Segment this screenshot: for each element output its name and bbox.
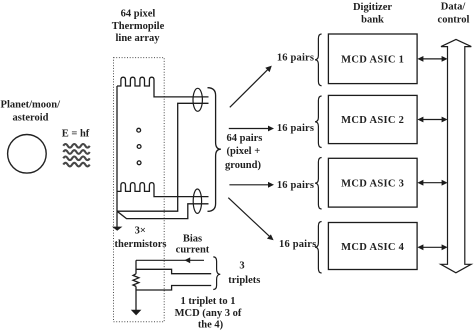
- array left bus wire: [116, 86, 118, 211]
- svg-text:Data/: Data/: [441, 1, 467, 12]
- label: Digitizer bank: [353, 2, 392, 25]
- svg-text:the 4): the 4): [198, 320, 224, 331]
- svg-text:MCD ASIC 3: MCD ASIC 3: [341, 179, 404, 190]
- bias current wire with arrow: [136, 259, 204, 261]
- arrow to ASIC2: [229, 128, 269, 130]
- triplet brace: [213, 257, 220, 290]
- svg-text:16 pairs: 16 pairs: [279, 239, 316, 250]
- label: Planet/moon/asteroid: [1, 100, 62, 124]
- arrow to ASIC4: [228, 198, 269, 237]
- label: 1 triplet to 1 MCD (any 3 of the 4): [175, 296, 242, 330]
- svg-text:16 pairs: 16 pairs: [277, 53, 314, 64]
- bus link ASIC1: [419, 58, 446, 60]
- bus link ASIC4: [419, 246, 446, 248]
- box MCD ASIC 4: [328, 223, 417, 270]
- arrow to ASIC1: [230, 69, 268, 107]
- svg-text:(pixel +: (pixel +: [227, 146, 261, 157]
- wire: ground return to top bundle: [117, 103, 209, 211]
- label: 64 pairs (pixel + ground): [225, 133, 262, 171]
- svg-text:16 pairs: 16 pairs: [277, 123, 314, 134]
- svg-text:1 triplet to 1: 1 triplet to 1: [180, 296, 235, 307]
- input brace ASIC3: [315, 158, 322, 210]
- svg-text:MCD ASIC 4: MCD ASIC 4: [341, 242, 405, 253]
- big brace 64 pairs: [208, 88, 221, 212]
- box MCD ASIC 1: [328, 34, 417, 84]
- arrow to ASIC3: [229, 184, 268, 186]
- svg-text:triplets: triplets: [228, 275, 260, 286]
- svg-text:control: control: [438, 14, 470, 25]
- box MCD ASIC 3: [328, 158, 417, 207]
- triplet wire bottom: [136, 286, 211, 291]
- svg-text:64 pixel: 64 pixel: [121, 9, 156, 20]
- label: 3x thermistors: [115, 226, 167, 250]
- svg-text:Planet/moon/: Planet/moon/: [1, 100, 62, 111]
- label: Data/control: [438, 1, 470, 25]
- input brace ASIC4: [315, 222, 322, 274]
- svg-text:bank: bank: [361, 14, 384, 25]
- data/control bus double arrow: [441, 39, 472, 272]
- svg-text:16 pairs: 16 pairs: [277, 180, 314, 191]
- svg-text:E = hf: E = hf: [62, 129, 90, 140]
- cable bundle ellipse bottom: [193, 189, 201, 213]
- input brace ASIC2: [315, 96, 322, 148]
- label: 64 pixel Thermopile line array: [112, 9, 165, 44]
- input brace ASIC1: [315, 34, 322, 86]
- svg-text:Bias: Bias: [183, 233, 202, 244]
- svg-text:line array: line array: [115, 33, 160, 44]
- svg-text:MCD ASIC 2: MCD ASIC 2: [341, 115, 404, 126]
- svg-text:ground): ground): [225, 160, 261, 171]
- radiation wave 4: [63, 163, 89, 167]
- svg-text:current: current: [176, 245, 210, 256]
- svg-text:thermistors: thermistors: [115, 239, 167, 250]
- thermistor chain arrow: [116, 211, 118, 227]
- cable bundle ellipse top: [193, 88, 202, 111]
- bus link ASIC2: [419, 119, 446, 121]
- bus link ASIC3: [419, 182, 446, 184]
- pixel ellipsis dot 1: [137, 128, 141, 132]
- svg-text:3×: 3×: [135, 226, 146, 237]
- svg-text:Thermopile: Thermopile: [112, 21, 165, 32]
- radiation wave 2: [63, 150, 89, 154]
- radiation wave 1: [63, 144, 89, 148]
- dashed array boundary box: [114, 58, 165, 322]
- pixel ellipsis dot 2: [137, 145, 141, 149]
- thermopile detector row 2 (humps): [117, 183, 209, 197]
- planet circle: [8, 135, 47, 174]
- thermistor resistor chain: [135, 260, 137, 274]
- svg-text:Digitizer: Digitizer: [353, 2, 392, 13]
- wire: ground return to bottom bundle: [117, 204, 209, 219]
- label: 16 pairs x4: [277, 53, 317, 250]
- label: 3 triplets: [228, 261, 260, 287]
- box MCD ASIC 2: [328, 95, 417, 143]
- pixel ellipsis dot 3: [137, 161, 141, 165]
- svg-text:MCD ASIC 1: MCD ASIC 1: [341, 55, 404, 66]
- svg-text:asteroid: asteroid: [13, 113, 49, 124]
- svg-text:64 pairs: 64 pairs: [227, 133, 263, 144]
- label: Bias current: [176, 233, 210, 255]
- radiation wave 3: [63, 157, 89, 161]
- thermopile detector row 1 (humps): [117, 77, 209, 97]
- triplet wire middle: [136, 269, 211, 273]
- svg-text:3: 3: [239, 261, 244, 272]
- svg-text:MCD (any 3 of: MCD (any 3 of: [175, 308, 242, 319]
